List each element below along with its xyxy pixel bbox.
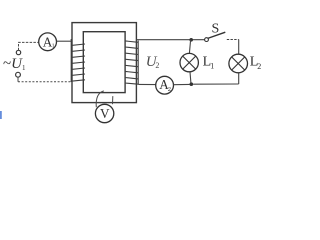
wire: bottom terminal to primary coil (dotted) [17,77,19,82]
svg-text:2: 2 [257,62,261,71]
lamp L2 [229,54,248,73]
lamp L1 [180,53,198,71]
node: AC source terminal top [16,50,20,54]
wire: top terminal to ammeter A1 [19,42,39,50]
primary winding (left coil) [71,39,85,82]
wire: lamp L1 bottom stub [190,72,191,84]
svg-text:2: 2 [168,86,171,93]
wire: switch to lamp L2 top [227,39,239,41]
svg-text:1: 1 [52,44,55,50]
wire: junction to lamp L2 bottom [193,83,239,85]
node: AC source terminal bottom [16,72,21,77]
wire: secondary bottom to ammeter A2 [138,83,156,85]
wire: voltmeter left lead (curved) [96,91,104,107]
ammeter A1 [39,33,57,51]
wire: lamp L1 top stub [189,40,190,53]
svg-text:S: S [212,21,220,36]
svg-text:1: 1 [210,61,214,70]
junction node (top, lamp L1 branch) [189,38,193,42]
switch S blade [208,32,226,38]
ammeter A2 [156,76,174,94]
wire: ammeter A1 to primary coil [57,40,72,42]
blue scan mark left edge [0,111,2,119]
switch S pivot [205,38,209,42]
junction node (bottom, lamp L1 branch) [190,82,194,86]
svg-text:V: V [100,106,110,121]
voltmeter V [95,104,113,122]
transformer core outer rectangle [72,23,136,103]
secondary winding (right coil) [125,41,138,85]
svg-text:2: 2 [155,61,159,70]
wire: voltmeter right lead [112,96,114,104]
wire: lamp L2 bottom stub [238,73,240,84]
transformer core inner rectangle [83,32,125,93]
wire: secondary top to junction [136,39,204,41]
wire: ammeter A2 to junction [174,83,190,85]
